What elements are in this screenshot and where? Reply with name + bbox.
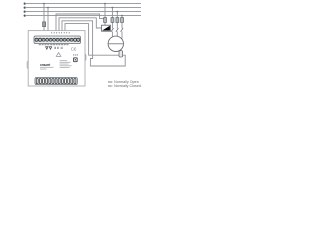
control wire P1: device pin to fuse F2 top	[56, 14, 105, 36]
warning triangle	[56, 53, 61, 57]
control wire P2: device pin to soft-starter box	[59, 18, 102, 37]
fuse F3	[111, 18, 114, 23]
fuse F2	[104, 18, 107, 23]
thermistor sensor RT1	[119, 51, 123, 57]
contactor contact K1 pole 2	[116, 28, 119, 36]
svg-text:nc: Normally Closed: nc: Normally Closed	[108, 84, 141, 88]
supply line L2	[24, 7, 141, 9]
spec text block	[60, 60, 72, 68]
junction node on L2 at x=112.4	[112, 7, 114, 9]
motor M1	[108, 36, 123, 51]
junction node on N at x=122	[121, 15, 123, 17]
wire drop to device pin with fuse F1	[43, 4, 45, 37]
phase wire drop 1	[111, 8, 113, 29]
fuse F1	[43, 22, 46, 27]
fuse F5	[121, 18, 124, 23]
device left mounting tab	[27, 61, 28, 69]
top pin number marks	[51, 32, 69, 33]
control wire P3: device pin to thermistor return	[62, 21, 125, 66]
phase wire drop 2	[116, 12, 118, 29]
soft-starter ramp box A1	[102, 25, 111, 31]
junction node on L3 at x=117.3	[116, 11, 118, 13]
phase indicator triangles	[46, 47, 52, 50]
contactor contact K1 pole 3	[121, 28, 124, 39]
supply line N	[24, 15, 141, 17]
phase wire drop 3	[121, 16, 123, 29]
contactor contact K1 pole 1	[111, 28, 114, 38]
junction node on L1 at x=44	[43, 3, 45, 5]
junction node on L1 at x=105	[104, 3, 106, 5]
device U1 body	[28, 31, 85, 86]
wire drop L1 to fuse F2	[104, 4, 106, 26]
control wire P4: device pin to thermistor	[65, 24, 119, 56]
bottom terminal strip X2	[35, 77, 77, 84]
device right terminal tab	[85, 54, 86, 61]
junction node on L2 at x=48	[47, 7, 49, 9]
description text line 1	[40, 66, 54, 69]
svg-text:crouzet: crouzet	[40, 63, 51, 67]
supply line L3	[24, 11, 141, 13]
logo badge	[73, 57, 78, 62]
description text line 2	[40, 68, 47, 71]
small symbol marks	[55, 47, 63, 49]
svg-text:C€: C€	[71, 47, 77, 52]
wire drop to device pin	[47, 8, 49, 37]
terminal label row	[39, 44, 69, 45]
supply line L1	[24, 3, 141, 5]
fuse F4	[116, 18, 119, 23]
top terminal strip X1	[34, 36, 81, 44]
marks above badge	[73, 54, 78, 55]
